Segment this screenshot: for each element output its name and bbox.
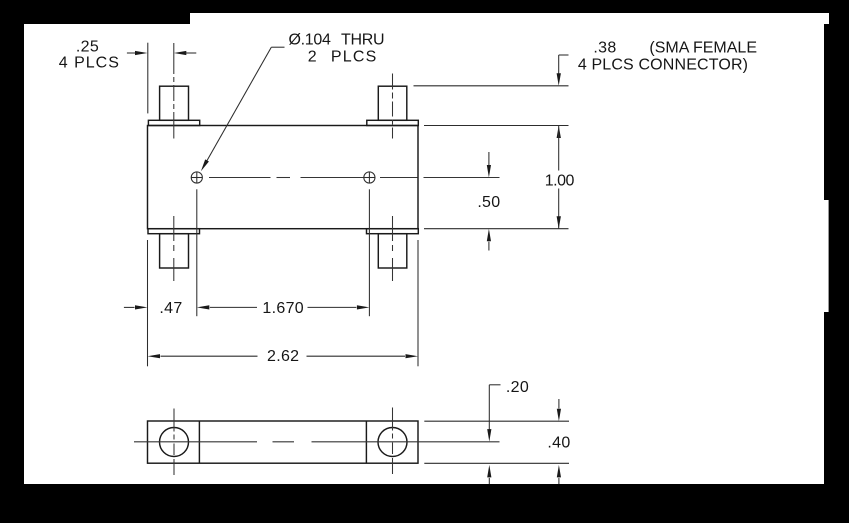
side view horizontal centerline <box>134 441 500 443</box>
extension line body right edge (bottom) <box>417 240 419 366</box>
.20 leader with down arrow <box>487 385 500 442</box>
svg-text:2: 2 <box>308 49 317 66</box>
svg-text:2.62: 2.62 <box>267 348 299 365</box>
svg-text:1.00: 1.00 <box>545 172 575 189</box>
extension line side view bottom <box>424 462 569 464</box>
extension line body bottom (right side) <box>424 228 569 230</box>
extension line right hole <box>368 189 370 316</box>
.50 upper arrow <box>487 152 491 178</box>
svg-text:Ø.104: Ø.104 <box>288 32 330 49</box>
white sheet top band <box>190 13 829 24</box>
hole right (Ø.104) <box>364 172 375 183</box>
side view connector bore left <box>160 428 189 457</box>
.25 dimension arrow left <box>127 51 148 55</box>
.50 lower arrow <box>487 229 491 251</box>
extension line connector top (right side) <box>414 85 569 87</box>
2.62 dimension line with arrows <box>148 354 419 358</box>
svg-text:(SMA FEMALE: (SMA FEMALE <box>649 40 757 57</box>
white sheet right notch <box>820 200 829 312</box>
hole leader line <box>201 47 285 171</box>
SMA connector stub top-right <box>378 86 407 120</box>
.47 dimension arrow <box>124 305 148 309</box>
extension line left hole <box>196 189 198 316</box>
.40 upper arrow <box>557 399 561 421</box>
SMA connector flange bottom-left <box>148 229 200 234</box>
SMA connector stub top-left <box>160 86 189 120</box>
svg-text:THRU: THRU <box>341 32 384 49</box>
SMA connector flange top-right <box>367 120 419 125</box>
side view outline <box>148 421 419 463</box>
SMA connector flange top-left <box>148 120 199 125</box>
horizontal centerline through holes <box>209 177 500 179</box>
SMA connector flange bottom-right <box>367 229 419 234</box>
extension line side view top <box>424 420 569 422</box>
svg-text:1.670: 1.670 <box>262 300 304 317</box>
centerline top-left connector <box>173 43 175 139</box>
svg-text:4 PLCS: 4 PLCS <box>59 55 120 72</box>
centerline top-right connector <box>392 74 394 139</box>
body outline (top view) <box>148 126 419 229</box>
svg-text:.50: .50 <box>477 194 500 211</box>
svg-text:.25: .25 <box>76 39 99 56</box>
SMA connector stub bottom-right <box>378 234 407 268</box>
1.670 dimension line with arrows <box>197 305 370 309</box>
hole left (Ø.104) <box>191 172 202 183</box>
centerline bottom-left connector <box>173 216 175 281</box>
SMA connector stub bottom-left <box>160 234 189 268</box>
extension line body left edge (top) <box>147 43 149 114</box>
.25 dimension arrow right <box>174 51 197 55</box>
side view inner line left <box>198 421 200 463</box>
.38 leader with down arrow <box>557 55 569 86</box>
svg-text:.20: .20 <box>506 379 529 396</box>
svg-text:.47: .47 <box>159 300 182 317</box>
1.00 dimension line with arrows <box>557 126 561 229</box>
side view vertical centerline left <box>173 409 175 476</box>
svg-text:.38: .38 <box>593 40 616 57</box>
extension line body left edge (bottom) <box>147 240 149 366</box>
svg-text:PLCS: PLCS <box>331 49 378 66</box>
side view vertical centerline right <box>392 408 394 475</box>
svg-text:.40: .40 <box>547 435 570 452</box>
up arrow below side view (right) <box>557 465 561 484</box>
up arrow below side view (left) <box>487 465 491 484</box>
extension line body top (right side) <box>424 125 569 127</box>
svg-text:4 PLCS CONNECTOR): 4 PLCS CONNECTOR) <box>578 56 748 73</box>
side view connector bore right <box>378 428 407 457</box>
centerline bottom-right connector <box>392 216 394 281</box>
side view inner line right <box>365 421 367 463</box>
